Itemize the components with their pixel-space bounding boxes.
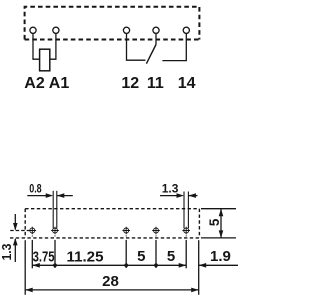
svg-text:1.9: 1.9 bbox=[210, 248, 231, 265]
svg-text:14: 14 bbox=[178, 75, 196, 92]
svg-text:0.8: 0.8 bbox=[29, 182, 42, 196]
svg-text:28: 28 bbox=[102, 273, 119, 290]
svg-text:A2: A2 bbox=[24, 75, 45, 92]
svg-text:3.75: 3.75 bbox=[33, 248, 55, 265]
svg-text:12: 12 bbox=[121, 75, 139, 92]
svg-text:11.25: 11.25 bbox=[67, 248, 104, 265]
svg-text:1.3: 1.3 bbox=[0, 244, 14, 261]
svg-text:5: 5 bbox=[207, 218, 222, 226]
svg-text:A1: A1 bbox=[49, 75, 70, 92]
svg-text:11: 11 bbox=[147, 75, 164, 92]
svg-text:5: 5 bbox=[137, 248, 145, 265]
svg-text:1.3: 1.3 bbox=[162, 182, 179, 196]
svg-text:5: 5 bbox=[167, 248, 175, 265]
